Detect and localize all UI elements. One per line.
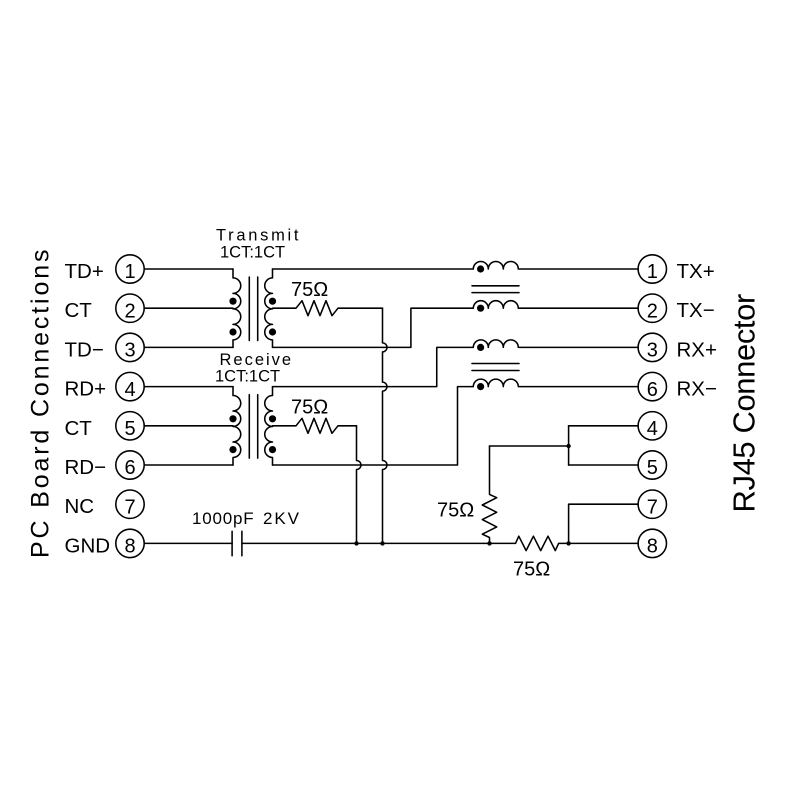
wire T1 secondary bottom jog up to choke L1 winding B and pin J2 xyxy=(273,301,639,348)
svg-text:PC Board Connections: PC Board Connections xyxy=(27,247,55,558)
choke L1 core xyxy=(472,286,519,293)
svg-text:1000pF: 1000pF xyxy=(192,509,254,528)
T1 polarity dot primary lower xyxy=(229,328,236,335)
svg-text:TX−: TX− xyxy=(677,299,715,322)
resistor R1 with leads from T1 secondary CT to node A xyxy=(273,301,383,316)
svg-text:7: 7 xyxy=(647,496,658,518)
pin J7 circle xyxy=(638,490,666,518)
svg-text:8: 8 xyxy=(647,536,658,558)
pin P3 circle xyxy=(116,333,144,361)
choke L2 dot winding A xyxy=(477,344,484,351)
wire pin J5 to junction xyxy=(569,464,639,466)
T2 polarity dot secondary lower xyxy=(269,446,276,453)
choke L1 dot winding A xyxy=(477,265,484,272)
svg-text:6: 6 xyxy=(124,457,135,479)
svg-text:4: 4 xyxy=(124,379,135,401)
svg-text:RD−: RD− xyxy=(65,456,107,479)
choke L2 core xyxy=(472,364,519,371)
pin J5 circle xyxy=(638,451,666,479)
wire T1 secondary top to choke L1 winding A and to pin J1 xyxy=(273,262,639,270)
svg-text:2: 2 xyxy=(124,300,135,322)
transformer T1 primary winding xyxy=(233,269,241,347)
pin J3 circle xyxy=(638,333,666,361)
svg-text:RX+: RX+ xyxy=(677,338,717,361)
choke L1 dot winding B xyxy=(477,305,484,312)
pin P5 circle xyxy=(116,412,144,440)
T1 polarity dot primary upper xyxy=(229,298,236,305)
svg-text:4: 4 xyxy=(647,418,658,440)
svg-text:5: 5 xyxy=(124,418,135,440)
transformer T1 core xyxy=(249,277,257,341)
pin P8 circle xyxy=(116,529,144,557)
svg-text:75Ω: 75Ω xyxy=(291,279,328,301)
svg-text:NC: NC xyxy=(65,495,95,518)
svg-text:TD+: TD+ xyxy=(65,260,104,283)
junction dot J4 J5 midpoint xyxy=(566,444,570,448)
pin J2 circle xyxy=(638,294,666,322)
svg-text:2KV: 2KV xyxy=(263,509,301,528)
wire node C to junction of pins J4 J5 xyxy=(490,445,569,447)
svg-text:3: 3 xyxy=(124,340,135,362)
wire pin2 to T1 primary CT xyxy=(144,307,233,309)
T1 polarity dot secondary upper xyxy=(269,298,276,305)
pin J6 circle xyxy=(638,372,666,400)
junction dot node A on ground bus xyxy=(380,541,384,545)
choke L2 dot winding B xyxy=(477,383,484,390)
svg-text:RX−: RX− xyxy=(677,378,717,401)
transformer T2 primary winding xyxy=(233,387,241,465)
pin J1 circle xyxy=(638,255,666,283)
wire vertical joining J4 and J5 xyxy=(568,426,570,465)
T2 polarity dot primary upper xyxy=(229,415,236,422)
svg-text:CT: CT xyxy=(65,299,93,322)
wire node B vertical to ground bus with hop over row 6 xyxy=(357,426,362,544)
T1 polarity dot secondary lower xyxy=(269,328,276,335)
pin P7 circle xyxy=(116,490,144,518)
svg-text:1CT:1CT: 1CT:1CT xyxy=(220,243,285,261)
svg-text:TD−: TD− xyxy=(65,338,104,361)
wire T2 secondary bottom jog up to choke L2 winding B and pin J6 xyxy=(273,379,639,465)
transformer T1 secondary winding xyxy=(265,269,273,347)
wire node A vertical to ground bus with hops over rows 3 4 6 xyxy=(383,308,388,543)
svg-text:75Ω: 75Ω xyxy=(513,559,550,581)
junction dot R3 on ground bus xyxy=(487,541,491,545)
wire pin J4 to junction xyxy=(569,425,639,427)
junction dot J7 branch on ground bus xyxy=(566,541,570,545)
transformer T2 core xyxy=(249,395,257,459)
wire pin4 to T2 primary top xyxy=(144,386,233,388)
pin J8 circle xyxy=(638,529,666,557)
ground bus wire with resistor R4 to pin J8 xyxy=(242,536,638,550)
svg-text:75Ω: 75Ω xyxy=(291,397,328,419)
pin P4 circle xyxy=(116,372,144,400)
svg-text:CT: CT xyxy=(65,417,93,440)
svg-text:75Ω: 75Ω xyxy=(437,500,474,522)
wire pin8 to capacitor C1 xyxy=(144,542,232,544)
svg-text:7: 7 xyxy=(124,496,135,518)
svg-text:8: 8 xyxy=(124,536,135,558)
T2 polarity dot secondary upper xyxy=(269,415,276,422)
pin P1 circle xyxy=(116,255,144,283)
capacitor C1 plates xyxy=(232,531,242,555)
resistor R3 vertical with leads from node C to ground bus xyxy=(482,446,496,543)
svg-text:1: 1 xyxy=(124,261,135,283)
wire pin1 to T1 primary top xyxy=(144,268,233,270)
pin P6 circle xyxy=(116,451,144,479)
svg-text:1: 1 xyxy=(647,261,658,283)
svg-text:3: 3 xyxy=(647,340,658,362)
svg-text:6: 6 xyxy=(647,379,658,401)
svg-text:GND: GND xyxy=(65,534,111,557)
wire pin5 to T2 primary CT xyxy=(144,425,233,427)
junction dot node B on ground bus xyxy=(354,541,358,545)
svg-text:1CT:1CT: 1CT:1CT xyxy=(215,367,280,385)
svg-text:2: 2 xyxy=(647,300,658,322)
svg-text:RJ45 Connector: RJ45 Connector xyxy=(727,294,762,512)
svg-text:5: 5 xyxy=(647,457,658,479)
svg-text:Transmit: Transmit xyxy=(216,227,301,245)
wire pin6 to T2 primary bottom xyxy=(144,464,233,466)
wire pin3 to T1 primary bottom xyxy=(144,346,233,348)
wire T2 secondary top jog up to choke L2 winding A and pin J3 xyxy=(273,340,639,387)
pin P2 circle xyxy=(116,294,144,322)
wire pin J7 down to ground bus xyxy=(569,504,639,543)
pin J4 circle xyxy=(638,412,666,440)
svg-text:TX+: TX+ xyxy=(677,260,715,283)
resistor R2 with leads from T2 secondary CT to node B xyxy=(273,418,357,433)
svg-text:RD+: RD+ xyxy=(65,378,107,401)
transformer T2 secondary winding xyxy=(265,387,273,465)
T2 polarity dot primary lower xyxy=(229,446,236,453)
